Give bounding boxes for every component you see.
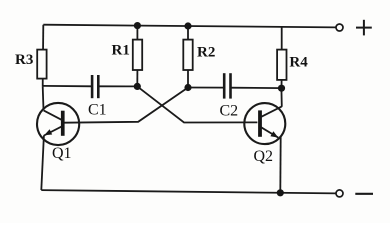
node: C2 / R2 / Q1-base junction — [184, 84, 191, 91]
wire: R1 bottom lead — [136, 70, 138, 86]
wire: R1 top lead — [136, 26, 138, 40]
resistor R3 — [37, 50, 46, 79]
resistor R2 — [183, 40, 192, 70]
label: − polarity symbol — [355, 193, 373, 195]
wire: cross coupling C2 node to Q1 base — [64, 88, 188, 123]
node: rail junction at R1 — [134, 22, 141, 29]
wire: R3 bottom to Q1 collector — [42, 86, 45, 110]
svg-text:R3: R3 — [15, 52, 33, 68]
capacitor C1 left lead — [43, 85, 92, 87]
node: C1 / R1 / Q2-base junction — [134, 83, 141, 90]
node: R4 / C2 / Q2-collector junction — [278, 85, 285, 92]
label: + polarity symbol — [356, 20, 372, 36]
wire: R2 bottom lead — [187, 70, 189, 88]
wire: Q2 emitter down to bottom rail — [279, 136, 281, 193]
svg-text:C1: C1 — [88, 101, 107, 118]
node: bottom rail junction at Q2 emitter — [277, 189, 284, 196]
svg-text:R4: R4 — [289, 55, 308, 71]
wire: top supply rail — [43, 25, 336, 28]
capacitor C2 right lead — [231, 87, 282, 89]
svg-text:R2: R2 — [197, 45, 215, 61]
capacitor C2 plates — [224, 73, 230, 98]
capacitor C1 plates — [92, 75, 98, 98]
transistor Q2 — [244, 103, 285, 144]
terminal: − supply open circle — [336, 190, 343, 197]
wire: R4 node down to Q2 collector — [280, 88, 282, 107]
capacitor C2 left lead — [188, 87, 224, 89]
wire: R4 top lead from rail — [281, 27, 283, 50]
svg-text:Q1: Q1 — [52, 145, 72, 162]
wire: left branch (rail corner down through R3 position) — [42, 25, 45, 86]
wire: R2 top lead — [187, 26, 189, 40]
svg-text:Q2: Q2 — [254, 148, 274, 165]
wire: Q1 emitter down to bottom rail — [41, 135, 44, 190]
wire: bottom supply rail — [41, 190, 336, 193]
resistor R1 — [133, 40, 142, 70]
capacitor C1 right lead — [98, 85, 137, 87]
node: rail junction at R2 — [184, 22, 191, 29]
svg-text:R1: R1 — [112, 43, 130, 59]
svg-text:C2: C2 — [220, 102, 239, 119]
transistor Q1 — [37, 103, 79, 145]
terminal: + supply open circle — [336, 24, 343, 31]
wire: R4 bottom lead — [281, 80, 283, 88]
resistor R4 — [277, 50, 286, 80]
wire: cross coupling C1 node to Q2 base — [137, 86, 257, 122]
